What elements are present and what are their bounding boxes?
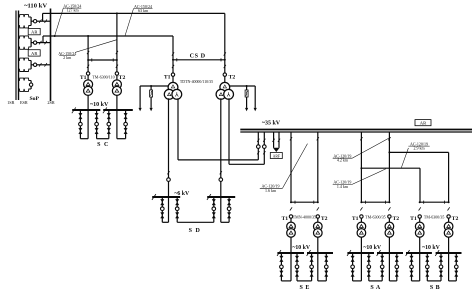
wire CSD T1 breaker to transformer: [172, 76, 174, 83]
wire line W2 drop to CS D T1: [172, 36, 174, 73]
svg-text:TM-6300/35: TM-6300/35: [365, 214, 385, 219]
svg-text:~110 kV: ~110 kV: [24, 2, 47, 9]
wire CSD T2 right leg 35kV: [228, 98, 230, 164]
svg-text:T2: T2: [119, 75, 126, 81]
transformer SA T1: [357, 222, 366, 231]
wire CSD T2 surge branch: [230, 85, 256, 87]
transformer SA T2: [385, 222, 394, 231]
wire SD in T2 to bus: [220, 181, 222, 197]
tie U SC f1-T1: [80, 138, 88, 140]
disconnector tick bay 3 b: [44, 63, 46, 67]
wire SB T1 breaker-transformer: [419, 218, 421, 223]
disconnector slash SD in T2: [220, 171, 222, 174]
wire line W2 110kV (to SC T1 and CS D T1): [51, 35, 174, 37]
tie U SB f1-T1: [412, 280, 420, 282]
wire SE T2 breaker-transformer: [317, 218, 319, 223]
feeder bay 2 junction bar: [30, 38, 32, 47]
wire SD in T1 to bus: [168, 181, 170, 197]
tie U SA f2-f3: [369, 280, 382, 282]
feeder SA f1: [352, 253, 354, 281]
svg-text:T1: T1: [281, 216, 288, 222]
svg-text:AR: AR: [31, 51, 38, 56]
wire SA T1 breaker-transformer: [360, 218, 362, 223]
wire bay 2 jog to line W2: [42, 36, 44, 43]
disconnector slash drop b: [278, 139, 280, 142]
feeder SB f1: [411, 253, 413, 281]
junction W2 near bus: [54, 35, 56, 37]
wire 35kV riser 2 from CSD T2: [263, 132, 265, 164]
transformer SB T2: [444, 222, 453, 231]
breaker SC T1: [86, 72, 89, 75]
wire SA T1 drop through bus: [360, 253, 362, 281]
svg-text:T1: T1: [410, 216, 417, 222]
disconnector slash SA T2 line: [388, 137, 390, 140]
wire SE T1 to 10kV bus: [290, 237, 292, 253]
surge arrester CSD T2 drop b: [254, 86, 256, 108]
disconnector slash riser 1 upper: [257, 139, 259, 142]
wire SA T2 to 10kV bus: [388, 237, 390, 253]
breaker SB T1: [418, 215, 421, 218]
feeder bay 1 upper disconnector path: [18, 15, 31, 17]
disconnector slash SB T1: [419, 207, 421, 210]
breaker circle bay 2: [31, 42, 33, 44]
bus slash SC section 1: [72, 107, 76, 113]
svg-text:TM-6300/35: TM-6300/35: [424, 214, 444, 219]
breaker 35kV riser 1: [257, 145, 261, 149]
disconnector tick bay 3 a: [39, 63, 41, 67]
wire SB T2 drop through bus: [448, 253, 450, 281]
tie U SB f2-f3: [427, 280, 441, 282]
surge arrester CSD T2 drop a (arrester): [246, 86, 248, 90]
tie line SB: [420, 201, 449, 203]
node SoP source double busbar: [15, 11, 17, 101]
disconnector slash CSD T1 upper: [172, 52, 174, 55]
wire SE T1 breaker-transformer: [290, 218, 292, 223]
svg-text:T2: T2: [229, 74, 236, 80]
tie tick SC b: [112, 58, 114, 61]
wire 35kV line to SB T2: [389, 151, 448, 153]
feeder SB f4: [455, 253, 457, 281]
bus slash SD section 2: [207, 194, 211, 200]
disconnector slash SA T1 line: [360, 137, 362, 140]
feeder SC f3: [108, 110, 110, 138]
tie U SE T2-f4: [318, 280, 327, 282]
wire SE T1 drop through bus: [290, 253, 292, 281]
disconnector tick bay 2 b: [44, 41, 46, 45]
disconnector slash drop a: [273, 139, 275, 142]
tie U SC T2-f4: [117, 138, 126, 140]
feeder bay 3 junction bar: [30, 61, 32, 70]
svg-text:1.6 km: 1.6 km: [265, 188, 277, 193]
leader line 1.4 km: [352, 169, 386, 185]
feeder SB f2: [426, 253, 428, 281]
feeder bay 3 lower disconnector path: [18, 69, 31, 71]
feeder bay 2 upper disconnector path: [18, 36, 31, 38]
breaker SE T2: [316, 215, 319, 218]
wire bay 2 to 110kV bus: [37, 42, 51, 44]
busbar ~35 kV upper line: [240, 129, 472, 131]
svg-text:~10 kV: ~10 kV: [292, 245, 310, 251]
wire line W1 110kV (to SC T2 and CS D T2): [51, 12, 225, 14]
disconnector slash SC T1 upper: [87, 51, 89, 54]
breaker CSD T2: [223, 73, 226, 76]
tie tick SB b: [444, 201, 446, 204]
disconnector slash SD in T1: [167, 171, 169, 174]
transformer SB T1: [415, 222, 424, 231]
svg-text:SoP: SoP: [29, 96, 39, 102]
feeder bay 4 junction bar: [30, 81, 32, 90]
wire 35kV drop SE T2: [317, 132, 319, 202]
transformer CSD T1 (three-winding): [168, 82, 178, 92]
AR device box 2: [28, 50, 40, 56]
junction SA T1 / line to SB T1: [360, 167, 362, 169]
svg-text:T1: T1: [352, 216, 359, 222]
svg-text:TM-6300/110: TM-6300/110: [92, 75, 114, 80]
busbar SE 10kV section 2: [307, 252, 333, 254]
AR device box 1: [28, 28, 40, 34]
feeder SE f2: [296, 253, 298, 281]
disconnector slash SA T2: [388, 207, 390, 210]
disconnector slash CSD T2 lower: [224, 65, 226, 68]
wire 35kV line to SB T1: [361, 167, 420, 169]
bus slash SE s2: [307, 250, 311, 256]
busbar SD 6kV section 2: [207, 196, 235, 198]
wire SC T2 feeder vertical: [116, 13, 118, 80]
feeder SE f1: [280, 253, 282, 281]
wire CSD T1 left leg to SD: [168, 98, 170, 178]
wire CSD T1 right leg 35kV: [177, 98, 179, 160]
disconnector slash CSD T1 lower: [172, 65, 174, 68]
tie tick CSD b: [220, 58, 222, 61]
station transformer arrow: [273, 148, 280, 152]
feeder SA f4: [396, 253, 398, 281]
busbar SD 6kV section 1: [152, 196, 180, 198]
svg-text:TDTN-40000/110/35: TDTN-40000/110/35: [180, 80, 213, 84]
feeder SE f4: [325, 253, 327, 281]
bus slash SD section 1: [152, 194, 156, 200]
wire SA T2 breaker-transformer: [388, 218, 390, 223]
wire 35kV drop SE T1: [290, 132, 292, 202]
svg-text:~10 kV: ~10 kV: [422, 245, 440, 251]
tie tick SA b: [384, 201, 386, 204]
tie line CS D: [173, 59, 225, 61]
tie U SD f2-f3: [177, 221, 214, 223]
wire SC T1 drop through bus: [87, 110, 89, 138]
disconnector slash SA T1: [360, 207, 362, 210]
feeder SD f1: [161, 197, 163, 222]
svg-text:S D: S D: [189, 228, 201, 234]
disconnector slash SE T2: [317, 207, 319, 210]
breaker SC T2: [115, 72, 118, 75]
wire SC T1 to 10kV bus: [87, 95, 89, 110]
wire CSD T2 breaker to transformer: [224, 76, 226, 83]
svg-text:T2: T2: [392, 216, 399, 222]
feeder SC f2: [96, 110, 98, 138]
wire SC T2 to 10kV bus: [116, 95, 118, 110]
breaker 35kV riser 2: [263, 145, 267, 149]
wire 35kV drop SA T2: [388, 132, 390, 202]
svg-text:~10 kV: ~10 kV: [90, 102, 109, 108]
tie U SC f2-f3: [97, 138, 109, 140]
feeder bay 1 lower disconnector path: [18, 26, 31, 28]
tie U SA T2-f4: [389, 280, 396, 282]
feeder SD f3: [213, 197, 215, 222]
wire bay 1 jog to line W1: [42, 13, 44, 21]
junction W1 / SC T2: [116, 12, 118, 14]
disconnector tick bay 1 b: [44, 19, 46, 23]
feeder SC f1: [79, 110, 81, 138]
disconnector slash SE T1 line: [290, 137, 292, 140]
disconnector slash riser 2 upper: [263, 139, 265, 142]
wire SE T2 drop through bus: [317, 253, 319, 281]
wire CSD T1 surge branch: [140, 85, 169, 87]
feeder bay 4 upper disconnector path: [18, 78, 31, 80]
tie tick SC a: [91, 58, 93, 61]
busbar SE 10kV section 1: [277, 252, 304, 254]
svg-text:S E: S E: [300, 285, 310, 291]
disconnector slash SC T2 upper: [116, 51, 118, 54]
breaker circle bay 3: [31, 64, 33, 66]
busbar SB 10kV section 1: [406, 252, 432, 254]
busbar SC 10kV section 2: [103, 109, 133, 111]
leader line 2 km: [75, 40, 117, 53]
busbar SA 10kV section 1: [347, 252, 374, 254]
svg-text:2 km: 2 km: [63, 55, 72, 60]
wire bay 3 to 110kV bus: [37, 64, 51, 66]
tie U SD f1-T1: [162, 221, 168, 223]
wire SB T2 breaker-transformer: [448, 218, 450, 223]
tie U SD T2-f4: [221, 221, 229, 223]
feeder bay 3 upper disconnector path: [18, 58, 31, 60]
wire 35kV drop SA T1: [360, 132, 362, 202]
wire bay 1 to 110kV bus: [37, 20, 51, 22]
leader line 127 km: [55, 8, 64, 36]
disconnector slash SE T1: [290, 207, 292, 210]
svg-text:T2: T2: [452, 216, 459, 222]
tie U SB T2-f4: [449, 280, 457, 282]
svg-text:1.4 km: 1.4 km: [337, 184, 349, 189]
svg-text:TMN-4000/35: TMN-4000/35: [293, 214, 316, 219]
tie U SA f1-T1: [353, 280, 362, 282]
wire SA T1 to 10kV bus: [360, 237, 362, 253]
tie tick CSD a: [176, 58, 178, 61]
transformer SC T2: [112, 80, 121, 89]
bus slash SA s1: [347, 250, 351, 256]
bus slash SB s1: [406, 250, 410, 256]
feeder SA f2: [368, 253, 370, 281]
disconnector slash SC T1 lower: [87, 65, 89, 68]
breaker SD incoming T2: [219, 178, 223, 182]
wire SB T2 to 10kV bus: [448, 237, 450, 253]
bus slash SE s1: [277, 250, 281, 256]
svg-text:~35 kV: ~35 kV: [262, 120, 281, 126]
transformer SE T1: [287, 222, 296, 231]
tie line SE: [291, 201, 318, 203]
breaker SD incoming T1: [167, 178, 171, 182]
disconnector tick bay 1 a: [39, 19, 41, 23]
bus slash SB s2: [435, 250, 439, 256]
breaker SA T2: [388, 215, 391, 218]
surge arrester CSD T1 drop b (arrester): [150, 86, 152, 90]
leader line 4.2 km: [352, 137, 391, 158]
tie line SC between T1 and T2: [88, 59, 117, 61]
svg-text:T2: T2: [321, 216, 328, 222]
disconnector slash SE T2 line: [317, 137, 319, 140]
svg-text:T1: T1: [164, 74, 171, 80]
wire SB T1 drop through bus: [419, 253, 421, 281]
svg-text:S B: S B: [430, 285, 440, 291]
disconnector slash SB T2: [448, 207, 450, 210]
bus slash SC section 2: [103, 107, 107, 113]
tie U SE f1-T1: [281, 280, 291, 282]
junction SA T2 / line to SB T2: [388, 151, 390, 153]
wire SD T2 drop through bus: [220, 197, 222, 222]
svg-text:AR: AR: [31, 30, 38, 35]
svg-text:S C: S C: [97, 142, 109, 148]
tie line SA: [361, 201, 389, 203]
disconnector slash CSD T2 upper: [224, 52, 226, 55]
station transformer drop b: [278, 132, 280, 148]
junction W2 / SC T1: [87, 35, 89, 37]
wire CSD T2 left leg to SD: [220, 98, 222, 178]
ARF device box: [270, 153, 282, 159]
wire SC T2 drop through bus: [116, 110, 118, 138]
wire line W1 drop to CS D T2: [224, 13, 226, 73]
wire 35kV riser 1 from CSD T1: [257, 132, 259, 160]
feeder bay 4 lower disconnector path: [18, 89, 31, 91]
wire SA T2 drop through bus: [388, 253, 390, 281]
busbar SA 10kV section 2: [377, 252, 403, 254]
feeder SD f2: [176, 197, 178, 222]
svg-text:~10 kV: ~10 kV: [363, 245, 381, 251]
svg-text:AR: AR: [420, 121, 427, 126]
breaker circle bay 4: [29, 83, 32, 86]
breaker SE T1: [289, 215, 292, 218]
wire SE T2 to 10kV bus: [317, 237, 319, 253]
breaker CSD T1: [171, 73, 174, 76]
transformer SE T2: [314, 222, 323, 231]
breaker circle bay 1: [31, 20, 33, 22]
leader line 63 km: [125, 9, 134, 36]
station transformer drop a: [273, 132, 275, 148]
svg-text:ESR: ESR: [20, 100, 28, 105]
leader line 1.6 km: [283, 144, 308, 189]
svg-text:CS D: CS D: [190, 52, 206, 59]
tie tick SB a: [423, 201, 425, 204]
tie tick SE b: [313, 201, 315, 204]
svg-text:~6 kV: ~6 kV: [174, 191, 190, 197]
svg-text:S A: S A: [370, 285, 381, 291]
leader line 2.9 km: [401, 148, 408, 168]
feeder bay 2 lower disconnector path: [18, 47, 31, 49]
feeder SA f3: [381, 253, 383, 281]
feeder SD f4: [228, 197, 230, 222]
transformer SC T1: [84, 80, 93, 89]
tie tick SA a: [364, 201, 366, 204]
breaker SB T2: [447, 215, 450, 218]
disconnector slash SC T2 lower: [116, 65, 118, 68]
disconnector slash riser 1 lower: [257, 151, 259, 154]
busbar ~35 kV lower line: [240, 131, 472, 133]
svg-text:2SR: 2SR: [47, 100, 54, 105]
bus slash SA s2: [377, 250, 381, 256]
tie U SE f2-f3: [297, 280, 312, 282]
feeder SC f4: [125, 110, 127, 138]
transformer CSD T2 (three-winding): [220, 82, 230, 92]
svg-text:63 km: 63 km: [138, 8, 149, 13]
feeder bay 1 junction bar: [30, 17, 32, 26]
busbar ~110 kV vertical: [50, 9, 52, 102]
AR device box 35kV: [415, 120, 431, 126]
feeder SE f3: [311, 253, 313, 281]
wire SB T1 to 10kV bus: [419, 237, 421, 253]
busbar SB 10kV section 2: [436, 252, 462, 254]
wire SD T1 drop through bus: [168, 197, 170, 222]
svg-text:127 km: 127 km: [66, 8, 79, 13]
busbar SC 10kV section 1: [72, 109, 100, 111]
svg-text:2.9 km: 2.9 km: [413, 146, 425, 151]
disconnector slash riser 2 lower: [263, 151, 265, 154]
svg-text:4.2 km: 4.2 km: [337, 158, 349, 163]
feeder SB f3: [440, 253, 442, 281]
svg-text:ARF: ARF: [273, 154, 280, 158]
tie tick SE a: [294, 201, 296, 204]
breaker SA T1: [360, 215, 363, 218]
disconnector tick bay 2 a: [39, 41, 41, 45]
surge arrester CSD T1 drop a: [139, 86, 141, 108]
svg-text:1SR: 1SR: [7, 100, 14, 105]
wire SC T1 feeder vertical: [87, 36, 89, 80]
